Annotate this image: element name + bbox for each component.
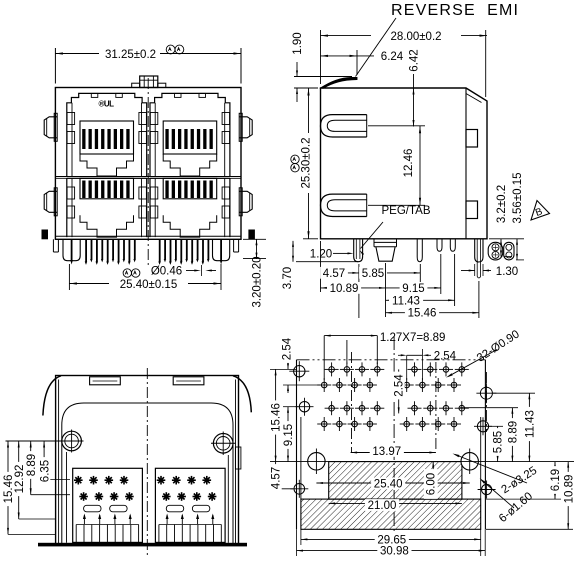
- svg-text:5.85: 5.85: [362, 268, 384, 280]
- dimension 1.90 extension lines: [294, 76, 352, 78]
- dimension 2.54 left: [287, 345, 289, 369]
- dimension 2.54 top right: [407, 354, 423, 356]
- bottom left step lines: [52, 239, 54, 252]
- svg-text:9.15: 9.15: [402, 283, 424, 295]
- svg-text:10.89: 10.89: [563, 475, 574, 504]
- side channel left: [66, 452, 68, 543]
- EMI fold strip (reverse EMI): [321, 77, 358, 88]
- side EMI bump right row2: [239, 191, 252, 212]
- leader to EMI fold: [356, 18, 397, 77]
- insulation displacement stars: [74, 479, 83, 481]
- top edge bumps beside tab: [132, 83, 140, 87]
- shield dimple lower: [466, 201, 478, 219]
- hold-down peg (hollow) with pin: [63, 239, 80, 260]
- svg-text:1.90: 1.90: [292, 32, 304, 54]
- svg-text:PEG/TAB: PEG/TAB: [382, 205, 431, 217]
- dimension 1.90: [296, 62, 298, 77]
- dimension 9.15: [386, 287, 441, 289]
- hatched center block: [329, 462, 462, 500]
- port opening: [163, 121, 217, 154]
- bottom comb teeth: [75, 525, 77, 543]
- svg-text:Ø0.46: Ø0.46: [151, 265, 182, 277]
- dimension 12.46: [419, 126, 421, 206]
- dimension 3.20±0.20: [256, 239, 258, 258]
- signal hole grid port1: [329, 367, 335, 373]
- dimension 29.65: [300, 529, 302, 545]
- insulation displacement stars: [157, 479, 166, 481]
- dimension 6.19: [486, 498, 561, 500]
- dimension 10.89: [385, 263, 387, 317]
- row separator lines: [55, 176, 241, 178]
- dimension 21.00: [329, 502, 462, 504]
- port side tab rects: [150, 187, 158, 199]
- port top cap notches: [175, 93, 182, 97]
- EMI curl right: [233, 376, 251, 413]
- inner edge left: [300, 417, 302, 499]
- svg-text:6.00: 6.00: [426, 473, 438, 495]
- contact pins port2: [159, 239, 161, 261]
- contact pins port1: [85, 239, 87, 261]
- dimension 3.70: [296, 261, 358, 263]
- dimension 6.42: [413, 74, 415, 127]
- svg-text:6.42: 6.42: [409, 49, 421, 71]
- centerline view A: [147, 78, 149, 268]
- mounting hole right 3.25: [461, 453, 478, 470]
- rear solder tab stadium 1: [488, 242, 503, 260]
- centerline view C: [146, 368, 148, 557]
- screw boss left: [62, 431, 82, 451]
- RJ45 port outline (bottom row, flipped): [150, 178, 230, 237]
- contact comb teeth: [82, 181, 85, 199]
- dimension 5.85: [359, 272, 420, 274]
- dimension 12.46 extension lines: [368, 125, 425, 127]
- shield body outline: [55, 88, 241, 240]
- bottom right step lines: [233, 239, 235, 252]
- svg-text:2.54: 2.54: [282, 337, 294, 360]
- svg-text:11.43: 11.43: [392, 295, 420, 307]
- shield hole centerline right: [485, 372, 487, 432]
- svg-text:8.89: 8.89: [26, 454, 38, 476]
- dimension 6.35 (rear): [43, 441, 45, 479]
- dimension 1.27X7=8.89: [324, 335, 377, 337]
- inspection symbol 2: [123, 269, 131, 277]
- dimension 10.89 (pcb right): [486, 528, 573, 530]
- svg-text:21.00: 21.00: [368, 500, 397, 512]
- dimension 31.25±0.2 extension lines: [54, 48, 56, 84]
- dimension 8.89 (pcb right): [460, 407, 518, 409]
- dimension 30.98: [296, 529, 298, 556]
- svg-text:25.40±0.15: 25.40±0.15: [120, 279, 177, 291]
- footprint centerline: [393, 336, 395, 534]
- dimension 31.25±0.2: [55, 53, 99, 55]
- screw boss right: [213, 434, 233, 454]
- svg-text:10.89: 10.89: [330, 283, 359, 295]
- dimension 12.92 (rear): [18, 441, 20, 519]
- svg-text:1.30: 1.30: [496, 266, 518, 278]
- shield hole B: [299, 402, 309, 412]
- port1 centerline: [351, 352, 353, 452]
- hatched solder strip: [301, 499, 481, 529]
- shield hole D: [480, 387, 492, 399]
- RJ45 port outline (bottom row, flipped): [67, 178, 147, 237]
- footprint right edge: [484, 360, 486, 530]
- pin comb markers: [166, 515, 168, 524]
- big circle centers line: [270, 461, 574, 463]
- dimension 28.00±0.2: [321, 35, 372, 37]
- dimension 6.24: [321, 55, 358, 57]
- top rear corner inner diagonal: [466, 94, 482, 103]
- svg-text:25.30±0.2: 25.30±0.2: [301, 137, 313, 188]
- latch slots: [84, 505, 101, 512]
- port side tab rects: [150, 113, 158, 125]
- side EMI bump right row1: [239, 117, 252, 138]
- port2 centerline: [435, 362, 437, 452]
- dimension 15.46 (pcb left): [275, 369, 277, 461]
- plastic peg PEG/TAB: [374, 241, 397, 243]
- top tab left: [90, 377, 121, 385]
- revision flag B: [531, 201, 550, 221]
- side channel right: [227, 455, 229, 543]
- side EMI bump left row1: [44, 117, 57, 138]
- port bottom clip notch: [163, 215, 217, 237]
- svg-text:11.43: 11.43: [525, 410, 537, 438]
- mounting hole left 3.25: [308, 453, 325, 470]
- svg-text:31.25±0.2: 31.25±0.2: [105, 49, 156, 61]
- bottom flange line: [55, 235, 241, 237]
- contact comb teeth: [165, 181, 168, 199]
- contact comb teeth: [165, 129, 168, 149]
- inspection symbol side: [291, 155, 299, 163]
- svg-text:30.98: 30.98: [380, 545, 409, 557]
- dimension 13.97: [351, 452, 436, 454]
- dimension 15.46: [386, 312, 479, 314]
- dimension 11.43: [386, 299, 455, 301]
- port inner side walls: [71, 103, 73, 176]
- svg-text:12.46: 12.46: [403, 149, 415, 178]
- port inner side walls: [71, 178, 73, 237]
- dimension 8.89 (rear): [30, 441, 32, 495]
- right small tab: [235, 447, 241, 469]
- dimension 25.30±0.2: [308, 88, 310, 239]
- signal hole grid port2: [412, 367, 418, 373]
- svg-text:28.00±0.2: 28.00±0.2: [390, 31, 441, 43]
- shield hole A: [294, 366, 305, 377]
- svg-text:3.2±0.2: 3.2±0.2: [496, 185, 508, 223]
- port top cap notches: [91, 93, 98, 97]
- svg-text:4.57: 4.57: [271, 467, 283, 489]
- dimension 11.43 (pcb right): [493, 392, 535, 394]
- shield hole C: [294, 484, 305, 495]
- dimension 25.30±0.2 extension lines: [303, 87, 318, 89]
- svg-text:6.24: 6.24: [381, 51, 404, 63]
- svg-text:3.20±0.20: 3.20±0.20: [252, 256, 264, 307]
- wire contact block: [73, 468, 143, 542]
- port bottom clip notch: [80, 215, 134, 237]
- rear solder tab stadium 2: [504, 242, 514, 260]
- EMI curl left: [43, 376, 61, 416]
- latch spring lower: [321, 194, 367, 216]
- rear dim reference line: [6, 440, 62, 442]
- svg-text:1.20: 1.20: [310, 248, 332, 260]
- svg-text:®UL: ®UL: [98, 100, 114, 109]
- dimension 25.40±0.15 extension lines: [68, 264, 70, 290]
- bottom corner block right: [248, 230, 255, 240]
- top shield tab: [140, 76, 158, 88]
- RJ45 port outline (top row): [67, 93, 147, 176]
- port opening: [80, 121, 134, 154]
- pin comb markers: [83, 515, 85, 524]
- side EMI bump left row2: [44, 191, 57, 212]
- RJ45 port outline (top row): [150, 93, 230, 176]
- hold-down peg (hollow) with pin: [213, 239, 230, 260]
- wire contact block: [155, 468, 225, 542]
- solder pin 2: [417, 239, 422, 262]
- svg-text:4.57: 4.57: [323, 268, 345, 280]
- rear body outline: [56, 376, 239, 545]
- bottom comb teeth: [158, 525, 160, 543]
- dimension 3.56±0.15: [516, 239, 518, 260]
- shield hole F: [482, 484, 492, 494]
- latch spring upper: [321, 115, 367, 137]
- footprint left edge: [296, 360, 298, 530]
- svg-text:2.54: 2.54: [394, 374, 406, 397]
- port inner side walls: [154, 178, 156, 237]
- rear shield leg: [475, 239, 483, 262]
- dimension 2.54 middle: [398, 369, 400, 376]
- dimension 9.15 (pcb left): [287, 407, 289, 462]
- dimension 25.40±0.15: [69, 283, 109, 285]
- inner edge right: [480, 417, 482, 499]
- body outline side view: [321, 88, 488, 239]
- solder pin 3: [437, 239, 442, 252]
- port inner side walls: [154, 103, 156, 176]
- svg-text:5.85: 5.85: [493, 431, 505, 453]
- dimension 28.00±0.2 extension lines: [320, 30, 322, 84]
- dimension 25.40 (pcb): [316, 482, 469, 484]
- dimension 3.20±0.20 extension lines: [243, 238, 266, 240]
- latch slots: [166, 505, 183, 512]
- dimension 4.57 (pcb left): [275, 462, 277, 489]
- inner wall lines: [58, 380, 60, 545]
- svg-text:6.19: 6.19: [550, 469, 562, 491]
- port opening: [163, 178, 217, 199]
- shield hole E: [477, 421, 488, 432]
- dimension 3.2±0.2: [489, 238, 524, 240]
- svg-text:15.46: 15.46: [271, 403, 283, 432]
- bottom corner block left: [42, 230, 49, 240]
- inner housing outline: [62, 403, 233, 545]
- contact comb teeth: [82, 129, 85, 149]
- port bottom clip notch: [80, 154, 134, 176]
- svg-text:9.15: 9.15: [283, 424, 295, 446]
- svg-text:3.56±0.15: 3.56±0.15: [512, 172, 524, 223]
- svg-text:1.27X7=8.89: 1.27X7=8.89: [380, 332, 446, 344]
- footprint top phantom line: [297, 359, 486, 361]
- port opening: [80, 178, 134, 199]
- svg-text:3.70: 3.70: [282, 267, 294, 289]
- svg-text:15.46: 15.46: [408, 308, 437, 320]
- dimension 15.46 (rear): [7, 441, 9, 534]
- inner rear vertical line: [465, 88, 467, 239]
- port side tab rects: [67, 113, 75, 125]
- top tab right: [173, 377, 204, 385]
- dimension 4.57: [320, 241, 322, 292]
- solder pin 4: [450, 239, 455, 252]
- dimension 5.85 (pcb right): [489, 425, 503, 427]
- svg-text:REVERSE EMI: REVERSE EMI: [391, 2, 519, 19]
- svg-text:6.35: 6.35: [39, 460, 51, 482]
- svg-text:12.92: 12.92: [14, 465, 26, 494]
- port side tab rects: [67, 187, 75, 199]
- svg-text:13.97: 13.97: [372, 446, 401, 458]
- dimension 1.30: [474, 264, 476, 276]
- shield dimple upper: [466, 130, 478, 148]
- svg-text:2.54: 2.54: [434, 351, 457, 363]
- port bottom clip notch: [163, 154, 217, 176]
- bottom thick base: [38, 543, 247, 547]
- dimension 6.00: [432, 462, 434, 500]
- svg-text:8.89: 8.89: [508, 421, 520, 443]
- svg-text:25.40: 25.40: [374, 478, 403, 490]
- inspection symbol: [166, 45, 175, 54]
- solder pin (hollow) below body: [354, 239, 363, 262]
